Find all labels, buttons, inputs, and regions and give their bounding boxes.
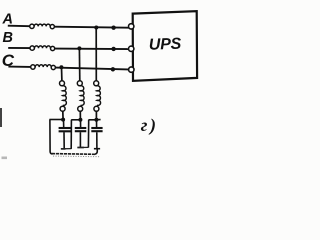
inductor L1 coil arcs [34, 24, 50, 26]
UPS box [133, 11, 197, 81]
UPS input terminal circle phase B [129, 46, 134, 51]
dot phase A near UPS [111, 26, 115, 30]
capacitor C1 top lead [63, 120, 65, 128]
wire phase A right segment [55, 27, 129, 28]
wire phase C right segment [56, 68, 129, 70]
shunt inductor L6 coil loops [96, 86, 100, 106]
dot phase C near UPS [111, 67, 115, 71]
dot phase B near UPS [111, 47, 115, 51]
inductor L2 coil arcs [35, 46, 51, 48]
delta left bypass vertical (to outer bottom bus) [50, 120, 53, 155]
inductor L3 left terminal circle [31, 65, 35, 69]
shunt branch 2 drop wire from phase B [78, 48, 80, 81]
delta wire from C1 top going left [49, 119, 63, 121]
junction dot phase A / shunt branch 3 [94, 26, 98, 30]
capacitor C3 top plate [91, 127, 102, 129]
shunt inductor L4 top terminal circle [60, 81, 65, 86]
UPS input terminal circle phase C [129, 67, 134, 72]
inductor L1 right terminal circle [50, 25, 54, 29]
wire L5 to C2 [79, 111, 81, 120]
delta bypass vertical branch3 (down to C2 bottom bus) [87, 120, 89, 148]
shunt inductor L4 coil loops [62, 86, 66, 106]
capacitor C1 bottom plate [59, 130, 72, 132]
outer bottom bus scan double edge [53, 155, 100, 158]
shunt inductor L5 top terminal circle [77, 81, 82, 86]
capacitor C2 bottom foot bar [77, 147, 84, 149]
shunt inductor L4 bottom terminal circle [60, 106, 65, 111]
capacitor C2 top plate [75, 127, 87, 129]
scan smudge left edge [0, 108, 2, 127]
inductor L3 coil arcs [35, 65, 51, 67]
shunt inductor L6 top terminal circle [94, 81, 99, 86]
wire C3 foot down to outer bus corner [95, 149, 97, 155]
junction dot branch 1 top of C1 [61, 118, 65, 122]
shunt branch 1 drop wire from phase C [61, 67, 63, 81]
wire phase A left segment [8, 25, 30, 28]
svg-text:г): г) [141, 115, 159, 136]
scan smudge bottom left [2, 157, 8, 160]
shunt inductor L5 coil loops [80, 86, 84, 106]
junction dot phase C / shunt branch 1 [59, 65, 63, 69]
delta bus C1-bottom to branch2 bypass [61, 148, 72, 150]
wire L6 to C3 [95, 111, 97, 120]
inductor L3 right terminal circle [51, 65, 55, 69]
capacitor C2 bottom lead [79, 132, 81, 147]
delta wire from C3 top going left [89, 119, 97, 121]
inductor L2 right terminal circle [51, 46, 55, 50]
capacitor C2 top lead [80, 120, 82, 127]
delta bus C2-bottom to branch3 bypass [77, 146, 88, 148]
wire L4 to C1 [62, 111, 64, 120]
capacitor C3 bottom plate [91, 130, 102, 132]
delta bypass vertical branch2 (down to C1 bottom bus) [70, 120, 72, 149]
wire phase C left segment [8, 66, 30, 68]
shunt branch 3 drop wire from phase A [95, 28, 97, 81]
outer bottom bus (C3 bottom to branch1 bypass) [52, 153, 96, 156]
capacitor C3 bottom foot bar [94, 148, 100, 150]
capacitor C1 bottom foot bar [61, 148, 66, 150]
inductor L2 left terminal circle [30, 46, 34, 50]
capacitor C3 bottom lead [96, 132, 98, 148]
svg-text:B: B [3, 30, 13, 46]
shunt inductor L6 bottom terminal circle [94, 106, 99, 111]
shunt inductor L5 bottom terminal circle [78, 106, 83, 111]
capacitor C1 bottom lead [63, 132, 65, 148]
wire phase B left segment [8, 47, 30, 49]
UPS input terminal circle phase A [129, 24, 134, 29]
capacitor C3 top lead [96, 120, 98, 127]
capacitor C2 bottom plate [75, 130, 87, 132]
junction dot branch 3 top of C3 [94, 118, 98, 122]
capacitor C1 top plate [59, 127, 72, 129]
stub wire right of C3 junction [96, 119, 100, 121]
delta wire from C2 top going left [71, 119, 80, 121]
wire phase B right segment [55, 48, 129, 51]
junction dot branch 2 top of C2 [78, 118, 82, 122]
inductor L1 left terminal circle [30, 24, 34, 28]
junction dot phase B / shunt branch 2 [77, 46, 81, 50]
svg-text:UPS: UPS [149, 36, 182, 54]
